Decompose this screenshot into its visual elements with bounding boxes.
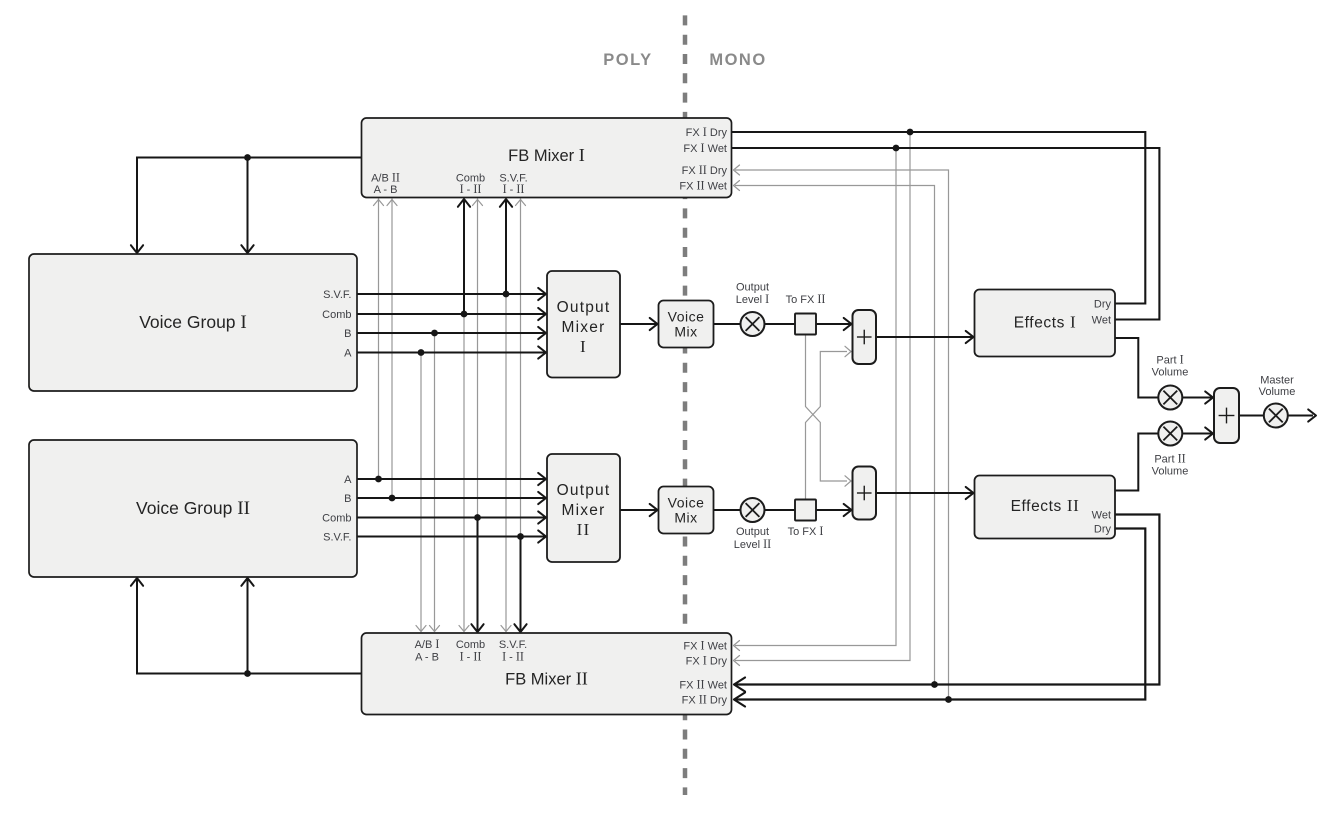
svg-text:A/B II: A/B II <box>371 170 400 184</box>
svg-text:A: A <box>344 474 352 486</box>
svg-text:I: I <box>580 337 587 356</box>
svg-text:Effects II: Effects II <box>1011 496 1080 515</box>
svg-text:A - B: A - B <box>415 651 439 663</box>
svg-text:POLY: POLY <box>603 51 652 69</box>
svg-text:Volume: Volume <box>1152 465 1189 477</box>
svg-text:Voice: Voice <box>668 308 705 324</box>
svg-text:Output: Output <box>557 482 611 499</box>
svg-text:I - II: I - II <box>503 182 525 196</box>
svg-text:Voice Group I: Voice Group I <box>139 312 247 333</box>
svg-text:Mixer: Mixer <box>562 502 606 519</box>
svg-text:Master: Master <box>1260 374 1294 386</box>
svg-text:FX II Dry: FX II Dry <box>682 163 728 177</box>
svg-text:Dry: Dry <box>1094 523 1112 535</box>
svg-text:I - II: I - II <box>502 649 524 663</box>
svg-text:FB Mixer I: FB Mixer I <box>508 145 585 165</box>
svg-text:Voice Group II: Voice Group II <box>136 498 250 519</box>
svg-text:S.V.F.: S.V.F. <box>323 531 351 543</box>
svg-text:FX II Wet: FX II Wet <box>679 178 727 192</box>
svg-text:Part II: Part II <box>1154 451 1185 465</box>
svg-text:Part I: Part I <box>1156 352 1183 366</box>
svg-text:II: II <box>577 520 591 539</box>
svg-text:Level I: Level I <box>736 292 769 306</box>
svg-text:Effects I: Effects I <box>1014 313 1077 332</box>
svg-text:Mixer: Mixer <box>562 319 606 336</box>
svg-text:Mix: Mix <box>674 323 697 339</box>
svg-text:Level II: Level II <box>734 537 771 551</box>
svg-text:Voice: Voice <box>668 494 705 510</box>
svg-text:Comb: Comb <box>322 309 351 321</box>
svg-text:B: B <box>344 493 351 505</box>
svg-text:Volume: Volume <box>1152 366 1189 378</box>
svg-text:A - B: A - B <box>374 184 398 196</box>
svg-text:To FX I: To FX I <box>788 524 824 538</box>
svg-text:FX I Dry: FX I Dry <box>686 653 728 667</box>
svg-text:S.V.F.: S.V.F. <box>323 289 351 301</box>
svg-text:FX II Wet: FX II Wet <box>679 677 727 691</box>
svg-text:Wet: Wet <box>1092 314 1111 326</box>
svg-text:I - II: I - II <box>460 649 482 663</box>
svg-text:A: A <box>344 347 352 359</box>
svg-text:Mix: Mix <box>674 509 697 525</box>
svg-text:FB Mixer II: FB Mixer II <box>505 668 588 688</box>
svg-text:Output: Output <box>557 299 611 316</box>
svg-text:Wet: Wet <box>1092 509 1111 521</box>
svg-text:I - II: I - II <box>460 182 482 196</box>
svg-text:FX I Dry: FX I Dry <box>686 125 728 139</box>
svg-text:Output: Output <box>736 281 769 293</box>
svg-text:To FX II: To FX II <box>786 292 826 306</box>
svg-text:Comb: Comb <box>322 512 351 524</box>
svg-text:MONO: MONO <box>709 51 766 69</box>
svg-text:Dry: Dry <box>1094 298 1112 310</box>
svg-text:B: B <box>344 328 351 340</box>
svg-text:FX I Wet: FX I Wet <box>683 141 727 155</box>
svg-text:FX II Dry: FX II Dry <box>682 692 728 706</box>
svg-text:A/B I: A/B I <box>415 637 440 651</box>
svg-text:FX I Wet: FX I Wet <box>683 638 727 652</box>
svg-text:Volume: Volume <box>1259 386 1296 398</box>
